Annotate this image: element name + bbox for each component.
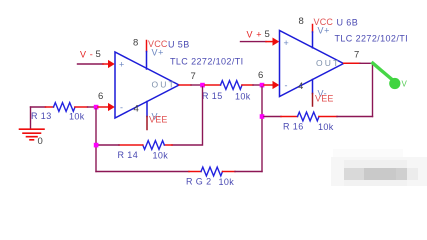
ground: [20, 107, 45, 140]
svg-text:6: 6: [258, 70, 263, 81]
voltage probe V: [373, 63, 401, 89]
svg-text:-: -: [285, 81, 289, 91]
svg-text:+: +: [284, 38, 290, 48]
U6B pin8 V+ power pin: [312, 25, 314, 48]
node junction J1: [94, 105, 99, 110]
resistor R13: [46, 103, 88, 112]
svg-text:6: 6: [98, 91, 103, 102]
svg-text:V -: V -: [80, 50, 93, 60]
resistor R16: [264, 112, 373, 121]
svg-text:VEE: VEE: [149, 115, 168, 125]
svg-text:R G 2: R G 2: [186, 177, 212, 187]
svg-text:R 15: R 15: [202, 91, 223, 101]
op-amp U6B triangle: [280, 31, 344, 97]
op-amp U5B triangle: [115, 52, 179, 118]
U6B pin4 V- power pin: [312, 80, 314, 107]
svg-text:OUT: OUT: [152, 80, 177, 90]
svg-text:VCC: VCC: [314, 17, 334, 27]
svg-text:V +: V +: [247, 30, 263, 40]
wire R13 to node: [88, 106, 97, 108]
node junction J4: [260, 83, 265, 88]
svg-text:10k: 10k: [69, 112, 85, 122]
svg-text:-: -: [120, 103, 124, 113]
svg-text:V: V: [402, 80, 408, 89]
node junction J5: [260, 114, 265, 119]
svg-text:5: 5: [96, 49, 101, 60]
svg-text:+: +: [119, 60, 125, 70]
wire right column J4 down to RG2 row: [261, 87, 263, 172]
svg-text:VEE: VEE: [315, 94, 334, 104]
wire RG2 to right column: [235, 171, 262, 173]
svg-text:4: 4: [298, 81, 303, 92]
svg-text:7: 7: [191, 71, 196, 82]
svg-text:OUT: OUT: [316, 58, 341, 68]
svg-text:10k: 10k: [318, 122, 334, 132]
resistor R14: [119, 141, 172, 150]
resistor RG2: [189, 167, 235, 176]
wire R14 to node J3: [96, 144, 119, 146]
node junction J3: [94, 143, 99, 148]
svg-text:V+: V+: [152, 48, 164, 58]
svg-text:V+: V+: [318, 26, 330, 36]
svg-text:8: 8: [299, 16, 304, 27]
svg-text:7: 7: [354, 50, 359, 61]
wire node to U5B pin6 with arrow: [98, 103, 115, 111]
U5B pin8 V+ power pin: [146, 41, 148, 70]
U5B pin4 V- power pin: [146, 102, 148, 130]
wire U6B output down to R16: [372, 63, 374, 116]
svg-text:TLC 2272/102/TI: TLC 2272/102/TI: [335, 34, 409, 44]
wire J1 down through J3 to RG2 row: [95, 109, 97, 172]
port V-: [78, 60, 115, 68]
svg-text:10k: 10k: [219, 177, 235, 187]
watermark: [331, 149, 427, 186]
wire U5B output down to R14: [172, 87, 203, 145]
svg-text:R 13: R 13: [31, 111, 52, 121]
U6B output wire: [344, 62, 373, 64]
svg-text:R 14: R 14: [118, 150, 139, 160]
svg-text:8: 8: [133, 38, 138, 49]
svg-text:10k: 10k: [235, 92, 251, 102]
wire node to U6B pin6 with arrow: [264, 81, 279, 89]
U5B output wire to junction: [179, 84, 201, 86]
node junction J2: [200, 83, 205, 88]
svg-text:TLC 2272/102/TI: TLC 2272/102/TI: [170, 57, 244, 67]
resistor R15: [205, 81, 260, 90]
svg-text:U 5B: U 5B: [168, 40, 190, 50]
wire RG2 row left: [96, 171, 189, 173]
svg-text:4: 4: [134, 104, 139, 115]
svg-text:0: 0: [38, 136, 43, 147]
svg-text:5: 5: [265, 29, 270, 40]
wire ground to R13: [31, 106, 46, 108]
svg-text:10k: 10k: [153, 151, 169, 161]
svg-text:VCC: VCC: [148, 39, 168, 49]
svg-text:U 6B: U 6B: [337, 18, 359, 28]
svg-text:R 16: R 16: [283, 122, 304, 132]
port V+: [241, 38, 280, 46]
